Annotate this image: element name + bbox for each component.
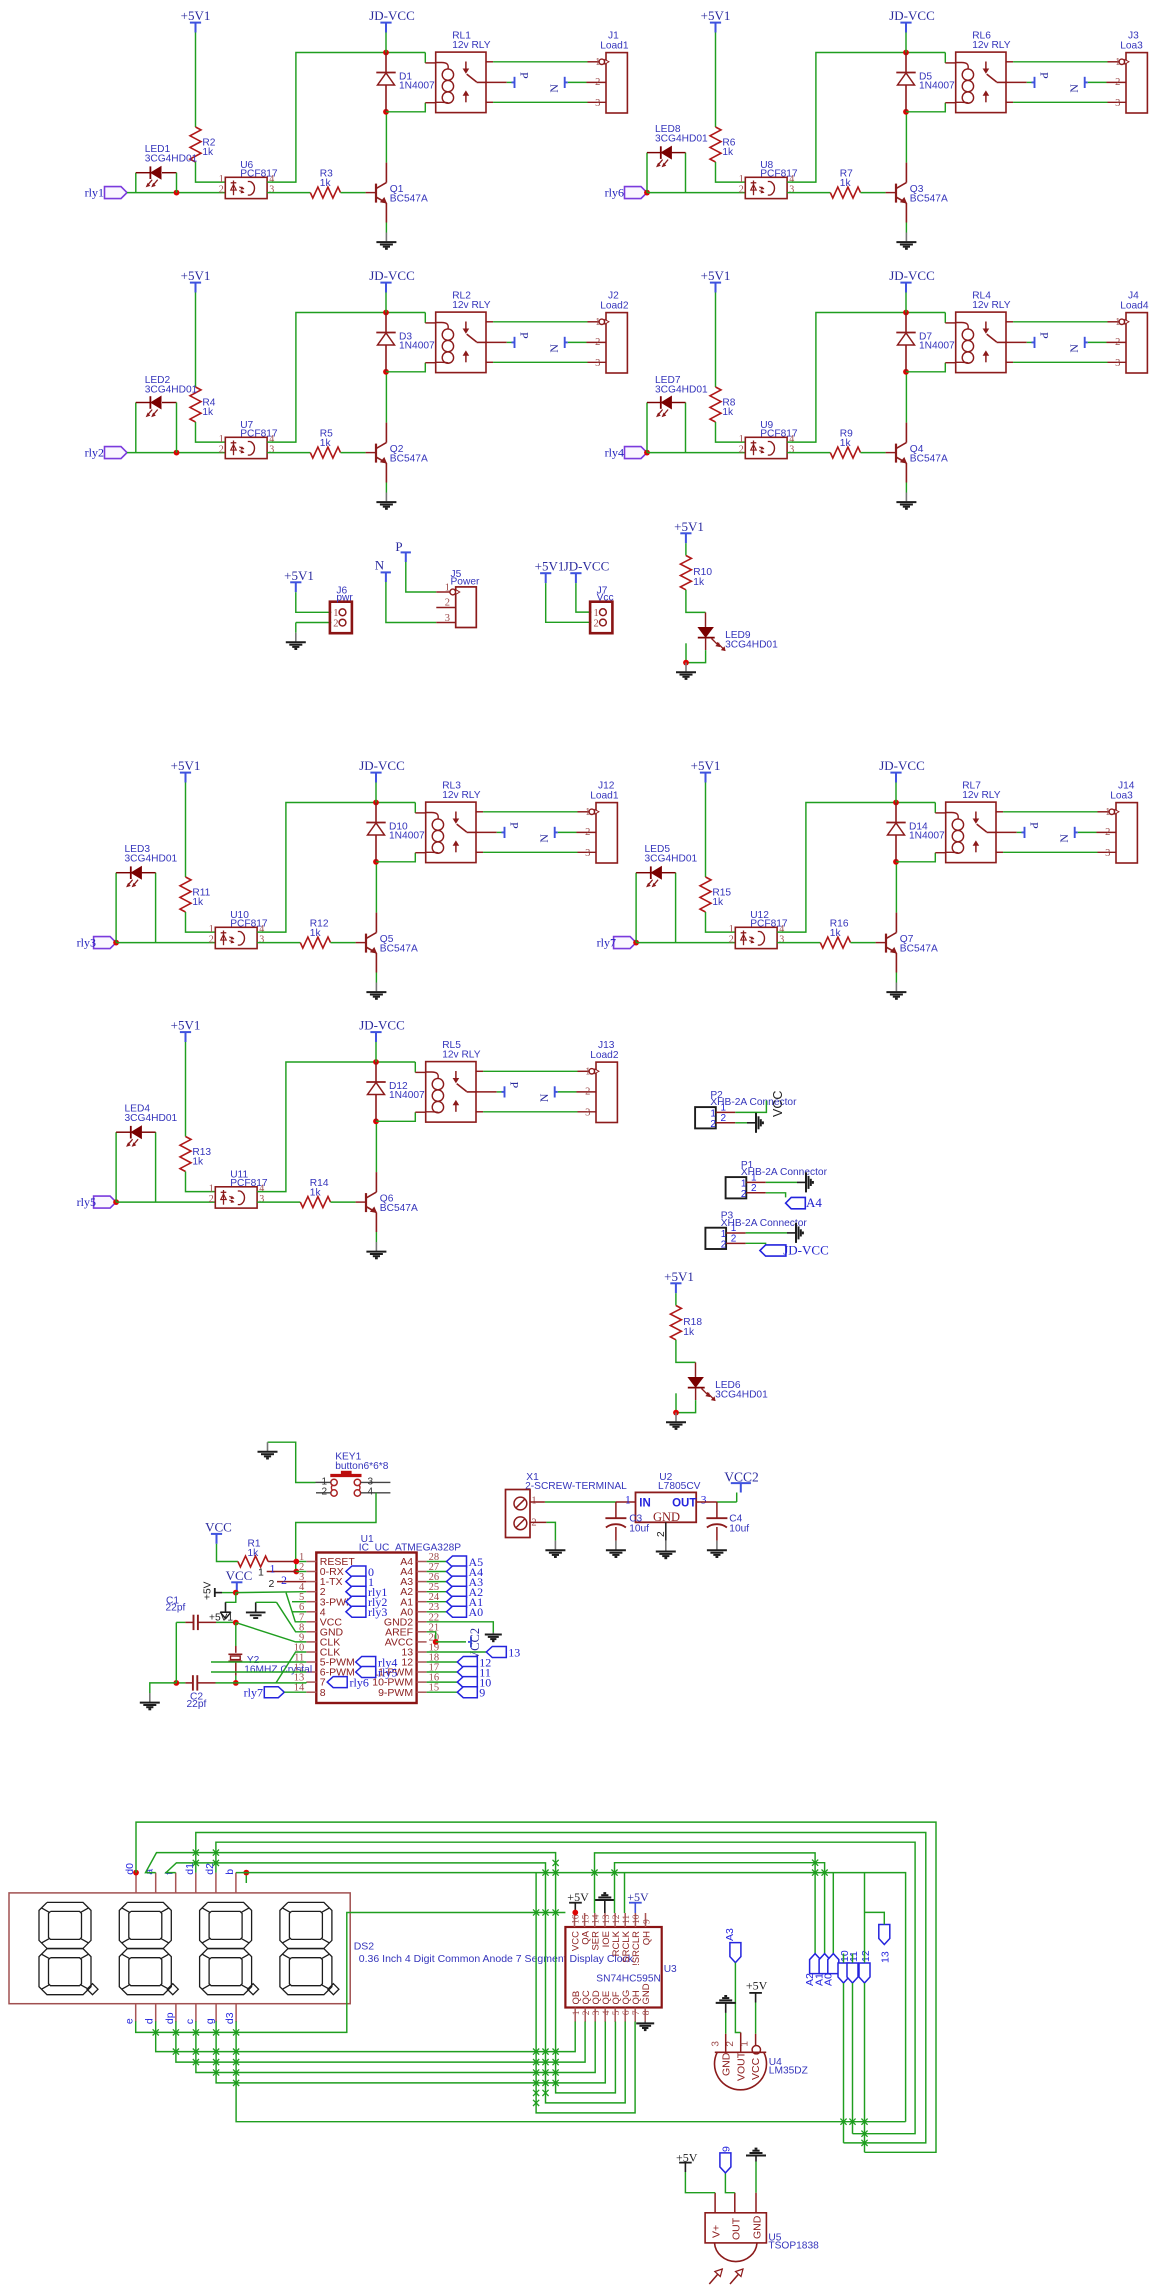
ground (U3 IOE, inverted) [604, 1900, 606, 1913]
DS2 bottom pin g [215, 2004, 217, 2022]
svg-text:1: 1 [585, 1066, 590, 1077]
wire N to J14 pin2 [1097, 831, 1117, 833]
ground (emitter) [895, 973, 897, 983]
U1 pin 2 0-RX [306, 1571, 316, 1573]
junction [903, 310, 909, 316]
svg-text:Load4: Load4 [1120, 301, 1149, 312]
U3 pin 10 !SRCLR [634, 1913, 636, 1927]
net port 9 (U5) [720, 2153, 731, 2173]
wire bottom junction to relay coil bottom [906, 363, 945, 372]
wire P2 pin1 to VCC [735, 1101, 766, 1113]
svg-text:1N4007: 1N4007 [919, 80, 955, 91]
svg-text:Load2: Load2 [600, 301, 629, 312]
U1 pin 23 GND2 [417, 1621, 427, 1623]
svg-text:JD-VCC: JD-VCC [783, 1243, 829, 1258]
wire rail to relay coil top [424, 313, 426, 323]
svg-text:+5V1: +5V1 [171, 758, 201, 773]
svg-text:BC547A: BC547A [390, 194, 428, 205]
svg-text:g: g [204, 2018, 216, 2024]
wire LED branch [135, 173, 137, 193]
wire N to J1 pin2 [587, 81, 607, 83]
resistor R13 1k [180, 1137, 191, 1172]
wire opto pin4 to rail [267, 53, 425, 183]
svg-text:12v RLY: 12v RLY [452, 40, 491, 51]
wire relay common to P [476, 1091, 497, 1093]
svg-text:OUT: OUT [730, 2217, 742, 2240]
net ports rly4,rly5 (U1 pins 11,12) [356, 1657, 376, 1668]
net flag rly6 [625, 187, 648, 199]
wire to base [861, 192, 886, 194]
svg-text:2-SCREW-TERMINAL: 2-SCREW-TERMINAL [525, 1481, 627, 1492]
ground (C4) [716, 1541, 718, 1551]
LED LED9 3CG4HD01 [698, 628, 713, 638]
svg-text:Power: Power [451, 577, 480, 588]
svg-text:1k: 1k [722, 147, 734, 158]
U1 pin 29 A4 [417, 1561, 427, 1563]
net flag JD-VCC [760, 1245, 786, 1256]
svg-text:2: 2 [585, 1087, 590, 1098]
svg-text:+5V: +5V [746, 1979, 768, 1993]
wire relay common to P [476, 831, 497, 833]
svg-text:1k: 1k [683, 1327, 695, 1338]
svg-text:OUT: OUT [672, 1498, 696, 1510]
wire rly6 to opto pin2 [647, 192, 745, 194]
button KEY1 button6*6*8 [330, 1474, 361, 1477]
ground (KEY1) [268, 1442, 316, 1482]
wire opto pin4 to rail [787, 53, 945, 183]
power flag +5V (U4) [755, 1993, 757, 2003]
svg-text:3: 3 [789, 184, 794, 195]
svg-text:1N4007: 1N4007 [919, 340, 955, 351]
wire relay NC to J4 pin3 [1006, 361, 1013, 363]
U1 pin 18 11-PWM [417, 1671, 427, 1673]
svg-text:Vcc: Vcc [597, 593, 614, 604]
svg-text:2: 2 [585, 827, 590, 838]
wire AVCC to VCC2 [436, 1641, 466, 1643]
wire relay NO contact to J1 pin1 [486, 61, 493, 63]
svg-text:+5V1: +5V1 [181, 8, 211, 23]
svg-text:JD-VCC: JD-VCC [369, 8, 415, 23]
wire relay NC to J3 pin3 [1006, 101, 1013, 103]
svg-text:8: 8 [642, 2010, 652, 2015]
svg-text:PCF817: PCF817 [230, 1178, 268, 1189]
power flag +5V (U5) [684, 2163, 686, 2172]
junction [633, 940, 639, 946]
connector J14 Loa3 [1116, 803, 1137, 863]
svg-text:PCF817: PCF817 [760, 168, 798, 179]
ground (emitter) [375, 1232, 377, 1242]
svg-text:rly7: rly7 [597, 936, 616, 950]
U1 pin 25 A1 [417, 1601, 427, 1603]
wire R10 to LED9 [686, 590, 706, 613]
wire U5 OUT to net 9 [725, 2173, 734, 2193]
wire R2 to opto pin1 [196, 162, 226, 182]
wire U5 GND to inverted ground [755, 2162, 757, 2193]
svg-text:1: 1 [1115, 57, 1120, 68]
wire JD-VCC to J7 pin1 [576, 583, 592, 612]
svg-text:12v RLY: 12v RLY [962, 790, 1001, 801]
svg-text:2: 2 [710, 1119, 716, 1130]
svg-text:3: 3 [1115, 358, 1120, 369]
wire +5V1 to R10 [685, 543, 687, 555]
wire bottom junction to relay coil bottom [906, 103, 945, 112]
svg-text:1k: 1k [202, 407, 214, 418]
U3 pin 5 QF [614, 2008, 616, 2023]
svg-text:N: N [547, 344, 561, 353]
net flag P [1034, 337, 1036, 348]
U4 pin stubs [725, 2034, 727, 2053]
U1 pin 9 CLK [306, 1641, 316, 1643]
junction (pin1) [293, 1559, 299, 1565]
net ports 12,11,10,9 (U1 pins 18-15) [427, 1661, 458, 1663]
svg-text:15: 15 [581, 1914, 591, 1924]
svg-text:P: P [508, 1082, 522, 1089]
svg-text:8: 8 [320, 1687, 326, 1699]
capacitor C4 10uf [716, 1502, 718, 1518]
svg-text:2: 2 [209, 1194, 214, 1205]
connector J1 Load1 [606, 53, 627, 113]
wire b to QH riser [536, 1873, 635, 2113]
wire RCLK row to A1 [615, 1863, 825, 1954]
DS2 digit 1 [39, 1902, 91, 1948]
svg-text:rly6: rly6 [350, 1676, 369, 1690]
ground (emitter) [385, 483, 387, 493]
wire AREF to AVCC [427, 1632, 436, 1642]
relay RL2 12v RLY [436, 312, 486, 373]
transistor Q2 BC547A [375, 444, 377, 463]
ground (emitter) [905, 483, 907, 493]
ground (P2 pin2) [747, 1122, 756, 1124]
svg-text:SN74HC595N: SN74HC595N [596, 1974, 661, 1985]
wire opto pin4 to rail [267, 313, 425, 443]
wire U2 OUT to VCC2 [696, 1501, 717, 1503]
svg-text:2: 2 [721, 1239, 727, 1250]
svg-text:V+: V+ [711, 2225, 723, 2238]
svg-text:12v RLY: 12v RLY [442, 790, 481, 801]
relay RL5 12v RLY [426, 1062, 476, 1123]
wire JD-VCC [375, 783, 377, 803]
relay RL1 12v RLY [436, 52, 486, 113]
wire collector [385, 112, 387, 163]
svg-text:+5V1: +5V1 [181, 268, 211, 283]
net flag P [1024, 827, 1026, 838]
wire bottom junction to relay coil bottom [376, 853, 415, 862]
wire P1 pin2 to A4 [766, 1193, 786, 1198]
svg-text:1: 1 [729, 924, 734, 935]
svg-text:A3: A3 [724, 1928, 736, 1941]
net flag N [554, 827, 556, 838]
wire rly1 to opto pin2 [127, 192, 225, 194]
U1 pin 14 8 [306, 1691, 316, 1693]
U1 pin 4 2 [306, 1591, 316, 1593]
ground (U5, inverted) [755, 2156, 757, 2162]
svg-text:3: 3 [710, 2041, 721, 2047]
svg-text:1: 1 [741, 1178, 747, 1189]
junction (C2 node) [233, 1680, 239, 1686]
svg-text:16: 16 [571, 1914, 581, 1924]
U1 pin 6 4 [306, 1611, 316, 1613]
wire collector [375, 1121, 377, 1172]
resistor R12 1k [300, 937, 330, 948]
net port 13 (U1 pin 19) [427, 1651, 487, 1653]
svg-text:N: N [1067, 344, 1081, 353]
junction [644, 450, 650, 456]
wire relay common to P [996, 831, 1017, 833]
DS2 digit 3 [200, 1902, 252, 1948]
LED LED7 [660, 396, 662, 409]
svg-text:12v RLY: 12v RLY [972, 40, 1011, 51]
wire C2 node to pin13 [236, 1682, 306, 1684]
crossing marks (bottom fan) [153, 2029, 159, 2035]
U1 pin 13 7 [306, 1681, 316, 1683]
junction (C1-C2 left) [173, 1680, 179, 1686]
svg-text:2: 2 [725, 2041, 736, 2047]
svg-text:1k: 1k [693, 577, 705, 588]
junction [644, 190, 650, 196]
wire to pin10 (CLK) [276, 1652, 306, 1683]
wire rly5 to opto pin2 [116, 1201, 215, 1203]
svg-text:+5V1: +5V1 [701, 8, 731, 23]
wire N to J4 pin2 [1107, 341, 1127, 343]
svg-text:JD-VCC: JD-VCC [889, 8, 935, 23]
LED LED4 [130, 1126, 132, 1139]
svg-text:4: 4 [602, 2010, 612, 2015]
svg-text:9: 9 [642, 1919, 652, 1924]
svg-text:3CG4HD01: 3CG4HD01 [125, 1113, 178, 1124]
power flag +5V1 (black, arrow) [225, 1602, 227, 1612]
wire LED branch risers [646, 403, 648, 453]
svg-text:2: 2 [595, 77, 600, 88]
wire collector [905, 372, 907, 423]
wire collector [905, 112, 907, 163]
transistor Q6 BC547A [365, 1193, 367, 1212]
resistor R8 1k [710, 387, 721, 422]
svg-text:PCF817: PCF817 [240, 428, 278, 439]
wire pin6 stub [292, 1611, 306, 1613]
svg-text:XHB-2A Connector: XHB-2A Connector [721, 1218, 808, 1229]
svg-text:+5V: +5V [203, 1581, 214, 1600]
svg-text:P: P [1028, 822, 1042, 829]
wire +5V1 node to crystal [235, 1623, 237, 1646]
svg-text:1N4007: 1N4007 [909, 830, 945, 841]
wire rly4 to opto pin2 [647, 452, 745, 454]
svg-text:JD-VCC: JD-VCC [889, 268, 935, 283]
svg-text:12: 12 [860, 1950, 872, 1962]
svg-text:2: 2 [1105, 827, 1110, 838]
U3 pin 11 SRCLK [624, 1913, 626, 1927]
junction (AVCC) [433, 1639, 439, 1645]
svg-text:rly1: rly1 [85, 186, 104, 200]
wire P3 pin1 to ground [746, 1232, 787, 1234]
resistor R11 1k [180, 877, 191, 912]
net flag rly5 [94, 1196, 117, 1208]
U3 pin 3 QD [594, 2008, 596, 2023]
wire g row to U3 QE [216, 2021, 605, 2083]
svg-text:BC547A: BC547A [390, 454, 428, 465]
svg-text:1N4007: 1N4007 [389, 1090, 425, 1101]
net ports A5-A0 (U1 pins 28-23) [427, 1561, 447, 1563]
wire LED6 to ground [695, 1388, 697, 1401]
svg-text:1: 1 [219, 174, 224, 185]
svg-text:c: c [184, 2019, 196, 2024]
svg-text:XHB-2A Connector: XHB-2A Connector [741, 1167, 828, 1178]
wire net 1 stub (pin2) [267, 1571, 297, 1573]
wire relay NC to J2 pin3 [486, 361, 493, 363]
DS2 digit 4 [280, 1902, 332, 1948]
svg-text:2: 2 [594, 619, 599, 630]
wire d0 row [133, 1870, 139, 1876]
svg-text:1: 1 [595, 57, 600, 68]
ground (P3 pin1) [787, 1232, 796, 1234]
net ports 0,1,rly1,rly2,rly3 (U1 pins 2-6) [346, 1566, 366, 1577]
svg-text:P: P [518, 332, 532, 339]
wire LED branch risers [115, 873, 117, 943]
svg-text:rly6: rly6 [605, 186, 624, 200]
svg-text:dp: dp [164, 2012, 176, 2024]
svg-text:1: 1 [585, 807, 590, 818]
crossing marks (top fan) [193, 1850, 199, 1856]
svg-text:N: N [547, 84, 561, 93]
wire bottom junction to relay coil bottom [896, 853, 935, 862]
U3 pin 8 GND [644, 2008, 646, 2023]
svg-text:1: 1 [270, 1564, 276, 1576]
svg-text:0.36 Inch 4 Digit Common Anode: 0.36 Inch 4 Digit Common Anode 7 Segment… [359, 1953, 634, 1965]
wire X1 pin2 to ground [530, 1521, 546, 1523]
wire relay NO contact to J3 pin1 [1006, 61, 1013, 63]
ground (U3 GND pin8) [644, 2020, 646, 2023]
svg-text:IN: IN [639, 1498, 651, 1510]
wire J6 pin2 to ground [296, 622, 332, 624]
wire R15 to opto pin1 [706, 912, 736, 932]
wire opto pin3 to R5 [267, 452, 310, 454]
svg-text:2: 2 [1115, 77, 1120, 88]
relay RL7 12v RLY [946, 802, 996, 863]
wire +5V1 to R13 [185, 1042, 187, 1137]
svg-text:1k: 1k [840, 438, 852, 449]
U5 pin stubs [714, 2193, 716, 2213]
wire rly7 to opto pin2 [636, 942, 735, 944]
junction [373, 1059, 379, 1065]
svg-text:3CG4HD01: 3CG4HD01 [655, 134, 708, 145]
svg-text:1k: 1k [248, 1548, 260, 1559]
ground (GND2) [492, 1633, 494, 1635]
wire relay common to P [1006, 81, 1027, 83]
junction [113, 1199, 119, 1205]
optocoupler U12 PCF817 [735, 927, 777, 948]
wire +5V1 to J6 pin1 [296, 592, 332, 612]
capacitor C3 10uf [615, 1502, 617, 1518]
svg-text:Load1: Load1 [600, 41, 629, 52]
wire VCC node to pin4 and pin7 [222, 1592, 236, 1594]
wire +5V1 node to pin9 [236, 1623, 306, 1642]
wire relay NO contact to J13 pin1 [476, 1070, 483, 1072]
svg-text:VCC: VCC [750, 2057, 762, 2080]
display DS2 outline [9, 1893, 350, 2004]
junction (VCC node) [233, 1590, 239, 1596]
svg-text:P: P [1038, 332, 1052, 339]
svg-text:+5V1: +5V1 [691, 758, 721, 773]
ground (LED6) [675, 1413, 677, 1423]
wire to base [331, 1201, 356, 1203]
svg-text:P: P [518, 72, 532, 79]
svg-text:2: 2 [209, 934, 214, 945]
svg-text:PCF817: PCF817 [230, 918, 268, 929]
U3 pin 4 QE [604, 2008, 606, 2023]
junction (+5V1 node) [233, 1620, 239, 1626]
diode D7 1N4007 [905, 313, 907, 333]
wire a row [146, 1853, 616, 2093]
wire to base [341, 192, 366, 194]
svg-text:1: 1 [595, 317, 600, 328]
svg-text:Loa3: Loa3 [1110, 791, 1133, 802]
resistor R3 1k [310, 187, 340, 198]
svg-text:e: e [124, 2018, 136, 2024]
svg-text:N: N [375, 558, 385, 573]
wire C1 to C2 left riser [175, 1622, 177, 1683]
net flag N [1074, 827, 1076, 838]
connector P2 XHB-2A [695, 1107, 716, 1128]
svg-text:10uf: 10uf [629, 1524, 649, 1535]
wire rail to relay coil top [424, 53, 426, 63]
svg-text:2: 2 [322, 1487, 328, 1498]
svg-text:+5V1: +5V1 [535, 559, 565, 574]
wire bottom junction to relay coil bottom [376, 1112, 415, 1121]
U1 pin 7 VCC [306, 1621, 316, 1623]
svg-text:12: 12 [612, 1914, 622, 1924]
wire LED branch [135, 403, 137, 453]
svg-text:BC547A: BC547A [910, 454, 948, 465]
svg-text:9-PWM: 9-PWM [378, 1687, 413, 1699]
optocoupler U6 PCF817 [225, 177, 267, 198]
resistor R9 1k [830, 447, 860, 458]
svg-text:P: P [1038, 72, 1052, 79]
wire opto pin4 to rail [787, 313, 945, 443]
wire U4 GND to inverted ground [725, 2013, 727, 2034]
U1 pin 28 A4 [417, 1571, 427, 1573]
wires pentagons 10/11/12 down [843, 1983, 845, 2143]
diode D12 1N4007 [375, 1062, 377, 1082]
svg-text:5: 5 [612, 2010, 622, 2015]
svg-text:1: 1 [258, 1566, 264, 1578]
svg-text:22pf: 22pf [166, 1602, 186, 1613]
net flag rly3 [94, 937, 117, 949]
junction [383, 50, 389, 56]
wire relay NO contact to J12 pin1 [476, 811, 483, 813]
ground (LED9) [685, 663, 687, 673]
resistor R4 1k [190, 387, 201, 422]
svg-text:3: 3 [585, 1107, 590, 1118]
wire U4 VCC to +5V [755, 2003, 757, 2034]
wire relay common to P [1006, 341, 1027, 343]
LED LED3 [130, 866, 132, 879]
transistor Q7 BC547A [885, 934, 887, 953]
connector J6 pwr [330, 602, 352, 634]
junction [373, 800, 379, 806]
svg-text:PCF817: PCF817 [760, 428, 798, 439]
svg-text:3: 3 [1115, 98, 1120, 109]
DS2 bottom pin d [155, 2004, 157, 2022]
svg-text:1: 1 [572, 2010, 582, 2015]
svg-text:1: 1 [219, 434, 224, 445]
U3 pin 13 IOE [604, 1913, 606, 1927]
net flag P [504, 827, 506, 838]
net ports 10 11 12 (down) [838, 1963, 849, 1983]
wire opto pin3 to R16 [777, 942, 820, 944]
svg-text:+5V1: +5V1 [664, 1269, 694, 1284]
connector J12 Load1 [596, 803, 617, 863]
svg-text:N: N [1057, 834, 1071, 843]
svg-text:14: 14 [592, 1914, 602, 1924]
